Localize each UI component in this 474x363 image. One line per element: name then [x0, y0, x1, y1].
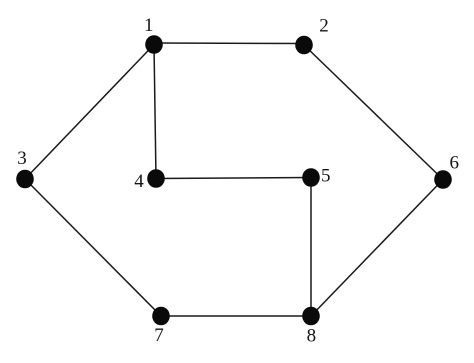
wire edge 1-3 [25, 45, 154, 180]
wire edge 1-4 [154, 45, 156, 179]
svg-text:8: 8 [307, 326, 317, 347]
wire edge 7-8 [161, 315, 311, 317]
svg-text:7: 7 [154, 325, 164, 346]
node 8 [302, 307, 320, 347]
svg-text:2: 2 [319, 16, 329, 37]
svg-text:4: 4 [134, 171, 144, 192]
node 3 [16, 148, 34, 188]
node 6 [434, 153, 459, 189]
node 7 [152, 307, 170, 346]
node 4 [134, 169, 165, 192]
wire edge 1-2 [154, 42, 304, 45]
svg-text:6: 6 [449, 153, 459, 174]
wire edge 4-5 [156, 178, 311, 179]
node 5 [302, 166, 330, 187]
wire edge 6-8 [311, 180, 443, 317]
svg-text:5: 5 [321, 166, 331, 187]
svg-text:1: 1 [144, 15, 154, 36]
wire edge 3-7 [25, 179, 161, 316]
svg-text:3: 3 [17, 148, 27, 169]
wire edge 5-8 [310, 178, 312, 317]
wire edge 2-6 [304, 45, 443, 180]
node 2 [295, 16, 329, 55]
node 1 [144, 15, 163, 54]
